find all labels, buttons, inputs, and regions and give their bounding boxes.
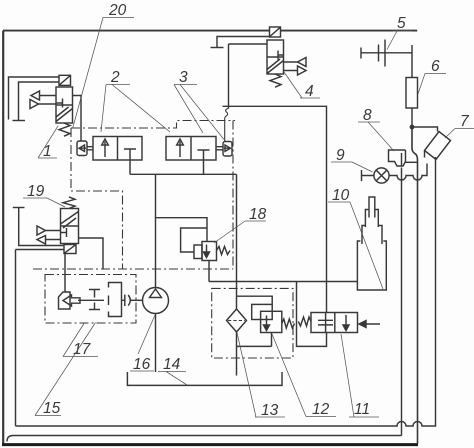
svg-text:10: 10: [332, 187, 350, 204]
svg-text:4: 4: [305, 83, 314, 100]
suction line bracket 14: [127, 372, 282, 385]
tank vent symbol under valve V1: [13, 120, 26, 122]
label 6: [418, 58, 446, 94]
label 3: [174, 69, 224, 140]
wire: filter 13 bypass branch to valve 12: [237, 296, 273, 346]
label 9: [331, 147, 373, 172]
spring of valve V18: [217, 247, 231, 255]
wire: valve V18 feed and pilot loop: [156, 218, 210, 282]
svg-text:20: 20: [108, 2, 127, 19]
wire: long line from V18 to cylinder 10: [209, 281, 358, 283]
spring of valve V1: [59, 123, 70, 136]
label 10: [328, 187, 383, 289]
svg-text:14: 14: [163, 356, 181, 373]
svg-text:18: 18: [249, 206, 267, 223]
spray gun 7 (tilted rectangle): [412, 127, 451, 160]
label 2: [101, 69, 170, 132]
label 13: [237, 333, 285, 420]
label 14: [158, 356, 187, 385]
svg-text:19: 19: [27, 183, 45, 200]
enclosure 17 boundary (dash-dot): [45, 275, 136, 324]
breather / filler 8: [389, 150, 418, 166]
svg-text:16: 16: [133, 356, 151, 373]
svg-text:8: 8: [363, 107, 372, 124]
wire: bypass loop through valve 11: [297, 281, 327, 346]
valve V2 two-position valve: [77, 137, 142, 161]
label 16: [130, 315, 155, 373]
wire: big loop from valve 4 down right side: [223, 44, 327, 281]
wire: valve V4 port lines: [217, 37, 298, 71]
svg-text:12: 12: [312, 401, 330, 418]
pilot triangles of valve V4: [298, 58, 307, 76]
wire: valve V19 port lines: [16, 208, 104, 292]
bypass relief valve V12: [252, 304, 282, 332]
label 19: [23, 183, 65, 207]
wire: valve V1 port lines: [9, 77, 82, 141]
svg-text:9: 9: [336, 147, 345, 164]
svg-text:11: 11: [354, 401, 370, 418]
wire: valves V2 V3 outlet header to main drop: [130, 160, 237, 174]
spring of valve V11: [298, 317, 311, 326]
telescopic cylinder C10: [357, 197, 386, 290]
manual override arrow of valve V11: [359, 321, 380, 328]
label 15: [35, 323, 96, 418]
quick coupling 5: [361, 40, 412, 67]
tank vent symbol of valve V4: [211, 47, 224, 49]
pump P16: [143, 288, 169, 314]
label 17: [63, 324, 98, 359]
valve V4 distributor with solenoid: [267, 27, 284, 74]
valve V11 two-position valve: [311, 313, 358, 333]
valve V19 distributor with solenoid: [61, 209, 79, 254]
wire: breather drop line (x=401.5): [401, 168, 403, 436]
wire: tank return line A (y=426) with hop-overs: [16, 157, 436, 426]
label 1: [38, 126, 58, 160]
svg-text:6: 6: [431, 58, 440, 75]
relief valve V18: [194, 242, 217, 261]
wire: line from indicator 9 with hop-unders: [389, 164, 427, 181]
indicator lamp 9 (crossed circle): [362, 168, 390, 183]
spring of valve V12: [282, 319, 295, 328]
filter F13 diamond: [227, 309, 247, 332]
valve V3 two-position valve: [166, 137, 232, 161]
wire: left drain riser (x=15.5) from valve 19 to tank line: [15, 250, 17, 427]
label 12: [272, 334, 336, 418]
enclosure for 12 13 boundary (dash-dot): [212, 288, 293, 358]
filter 6: [406, 45, 418, 127]
label 18: [214, 206, 267, 243]
svg-text:15: 15: [43, 400, 61, 417]
svg-text:3: 3: [179, 69, 188, 86]
valve V1 manual pneumatic distributor: [56, 75, 73, 123]
label 20: [73, 2, 134, 128]
spring of valve V19: [63, 197, 75, 209]
svg-text:7: 7: [460, 113, 470, 130]
junction node at filter outlet: [410, 125, 415, 130]
wire: tank return line B (y=435.5) with left hook: [7, 436, 402, 442]
svg-text:17: 17: [73, 341, 92, 358]
label 4: [284, 72, 320, 100]
pilot triangles of valve V1: [30, 91, 40, 109]
svg-text:13: 13: [261, 402, 279, 419]
pilot triangles of valve V19: [37, 226, 46, 244]
label 7: [445, 113, 474, 138]
tank vent symbol of valve V19: [13, 207, 25, 209]
spring of valve V4: [270, 74, 281, 87]
drive unit 17: motor box, arrow, coupling, gearbox: [59, 283, 143, 317]
label 5: [387, 15, 412, 50]
label 8: [358, 107, 394, 151]
svg-text:2: 2: [110, 69, 120, 86]
svg-text:1: 1: [43, 143, 52, 160]
wire: main center drop line: [236, 174, 238, 375]
svg-text:5: 5: [397, 15, 406, 32]
wire: pump pressure and suction lines: [155, 174, 157, 372]
label 11: [341, 334, 379, 418]
enclosure 20 boundary (dash-dot): [33, 121, 235, 270]
